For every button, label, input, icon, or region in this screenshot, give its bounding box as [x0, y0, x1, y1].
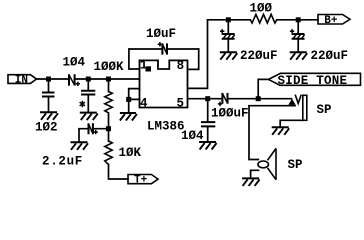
svg-text:5: 5 — [177, 96, 185, 110]
svg-text:1Ø4: 1Ø4 — [63, 56, 86, 70]
svg-text:1ØuF: 1ØuF — [146, 27, 176, 41]
svg-text:22ØuF: 22ØuF — [240, 49, 278, 63]
svg-text:22ØuF: 22ØuF — [311, 49, 349, 63]
svg-text:T+: T+ — [134, 174, 148, 186]
svg-text:1ØØ: 1ØØ — [250, 2, 273, 16]
svg-text:4: 4 — [140, 97, 148, 111]
svg-text:LM386: LM386 — [147, 120, 185, 134]
svg-text:1Ø2: 1Ø2 — [35, 121, 58, 135]
svg-text:2.2uF: 2.2uF — [42, 155, 83, 169]
svg-text:1: 1 — [140, 58, 148, 72]
svg-text:SP: SP — [317, 103, 332, 117]
svg-text:8: 8 — [177, 59, 185, 73]
svg-text:B+: B+ — [324, 15, 338, 27]
svg-text:1ØØK: 1ØØK — [94, 60, 125, 74]
svg-text:IN: IN — [15, 75, 28, 87]
svg-text:1ØØuF: 1ØØuF — [211, 107, 249, 121]
svg-text:1Ø4: 1Ø4 — [181, 129, 204, 143]
svg-text:1ØK: 1ØK — [119, 146, 142, 160]
svg-text:SP: SP — [288, 158, 303, 172]
svg-text:SIDE TONE: SIDE TONE — [278, 74, 348, 88]
